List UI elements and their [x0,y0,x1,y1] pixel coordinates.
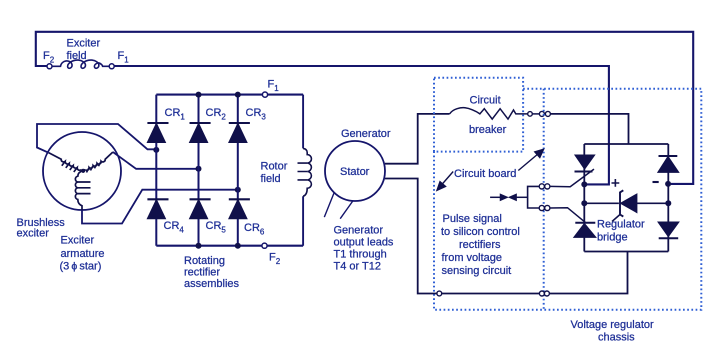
dotted outline: voltage regulator chassis [434,89,701,310]
svg-text:CR5: CR5 [206,220,227,235]
svg-text:F2: F2 [43,50,55,65]
junction: bridge right rail SCR2 anode [665,200,671,206]
svg-text:Circuit board: Circuit board [454,168,516,180]
svg-text:bridge: bridge [597,232,628,244]
diode CR1 [147,123,168,143]
svg-text:T4 or T12: T4 or T12 [334,261,382,273]
svg-text:Circuit: Circuit [470,95,501,107]
diode D1 (top right, pointing up) [658,156,679,172]
svg-text:F1: F1 [268,79,280,94]
diode CR5 [190,199,211,219]
wire: SCR2 cathode line [584,202,619,204]
svg-text:output leads: output leads [334,237,394,249]
terminal: breaker output single [528,112,533,117]
junction: phase B on CR2 leg [196,166,202,172]
svg-text:CR1: CR1 [165,107,186,122]
junction: top bus CR2 [196,92,202,98]
arrow: circuit board label to chassis edge [437,172,453,191]
svg-text:armature: armature [61,248,105,260]
thyristor SCR3 (bottom left, pointing up) [574,223,596,238]
diode CR4 [147,199,168,219]
svg-text:Exciter: Exciter [67,38,101,50]
svg-text:chassis: chassis [598,332,635,344]
wire: rotor field right side verticals [302,95,304,246]
wire: CR1/CR4 leg [155,95,157,246]
svg-text:Generator: Generator [341,128,391,140]
wire: rectifier bottom bus [156,245,303,247]
svg-text:F1: F1 [118,50,130,65]
connector pair: pulse line 1 [539,184,550,189]
svg-text:+: + [611,175,620,192]
wire: sensing lead to bridge bottom node [549,252,627,294]
connector pair: breaker output through chassis [539,111,550,116]
svg-text:CR3: CR3 [246,107,267,122]
wire: F1 across at y=65.5 to vertical x=609 down to bridge left rail [114,66,609,184]
diode CR6 [229,199,250,219]
svg-text:T1 through: T1 through [334,249,387,261]
junction: bridge right rail minus node [665,181,671,187]
svg-text:rectifiers: rectifiers [459,239,501,251]
wire: pulse signal bracket [528,186,540,208]
circuit breaker element: hump and overload coil zigzag [450,108,528,119]
wire: breaker output to bridge plus node [550,114,628,144]
svg-text:CR6: CR6 [244,222,265,237]
svg-text:CR2: CR2 [206,107,227,122]
svg-text:Rotor: Rotor [261,161,288,173]
svg-text:to silicon control: to silicon control [441,226,520,238]
svg-text:Voltage regulator: Voltage regulator [571,319,655,331]
exciter armature circle [43,132,121,210]
terminal F1 (exciter field) [109,64,114,69]
regulator bridge outline [584,144,668,252]
thyristor SCR2 (center, pointing left) [612,190,637,221]
svg-text:breaker: breaker [469,124,507,136]
svg-text:assemblies: assemblies [184,278,240,290]
svg-text:sensing circuit: sensing circuit [442,265,512,277]
svg-text:exciter: exciter [17,228,50,240]
wire: breaker link [532,113,539,115]
diode CR2 [190,123,211,143]
wire: CR2/CR5 leg [198,95,200,246]
svg-text:Regulator: Regulator [597,219,645,231]
svg-text:(3 ϕ star): (3 ϕ star) [60,261,102,273]
wire: armature phase A to CR1 leg [37,124,156,153]
wire: SCR2 anode line [637,202,668,204]
svg-text:Generator: Generator [334,225,384,237]
junction: phase C on CR3 leg [235,187,241,193]
terminal F1 (rotor field) [262,92,267,97]
svg-text:F2: F2 [269,252,281,267]
diode CR3 [229,123,250,143]
wire: armature phase B to CR2 leg [113,152,199,169]
winding: armature phase up-left [49,153,83,172]
terminal F2 (rotor field) [262,243,267,248]
svg-text:CR4: CR4 [164,220,185,235]
dotted box: circuit breaker [434,78,523,152]
svg-text:rectifier: rectifier [184,267,220,279]
generator stator circle [325,141,385,201]
wire: CR3/CR6 leg [237,95,239,246]
inductor: rotor field coil [298,148,312,196]
wire: F2 lead up left side, across top to regulator bridge minus node [36,32,693,184]
dotted boundary: circuit board [543,89,545,310]
thyristor SCR1 (top left, anode down) [575,155,595,172]
wire: stator output to circuit breaker (upper) [385,114,450,164]
wire: armature phase C to CR3 leg [82,190,238,224]
svg-text:field: field [67,50,87,62]
junction: armature star point [81,169,85,173]
svg-text:field: field [261,173,281,185]
winding: armature phase up-right [83,152,113,172]
wire: stator output lower to bridge bottom [385,179,437,294]
svg-text:Exciter: Exciter [61,235,95,247]
connector pair: pulse line 2 [539,205,550,210]
svg-text:Pulse signal: Pulse signal [443,213,502,225]
terminal: sensing lead single [437,291,442,296]
wire: pulse line 2 to SCR3 gate [550,208,586,223]
junction: bridge left rail to F1 supply [581,181,587,187]
inductor: exciter field coil [52,60,109,68]
terminal F2 (exciter field) [47,64,52,69]
junction: phase A on CR1 leg [153,147,159,153]
connector pair: sensing lead through board boundary [539,291,549,296]
svg-text:Rotating: Rotating [184,255,225,267]
wire: sensing lead to connector pair [442,293,540,295]
junction: bridge left rail to SCR2 cathode [581,200,587,206]
pointer lines: generator output leads [324,193,353,219]
junction: bottom bus CR5 [196,243,202,249]
svg-text:from voltage: from voltage [442,252,503,264]
svg-text:Stator: Stator [340,166,370,178]
arrow: circuit board label to board boundary [518,149,543,170]
arrow annotation: pulse signal direction [490,195,527,201]
junction: top bus CR3 [235,92,241,98]
wire: rectifier top bus [156,94,303,96]
winding: armature phase down [75,171,90,210]
label minus [653,181,659,183]
diode D2 (bottom right, pointing down) [658,222,679,238]
junction: bottom bus CR6 [235,243,241,249]
wire: pulse line 1 to SCR1 gate [550,169,594,187]
